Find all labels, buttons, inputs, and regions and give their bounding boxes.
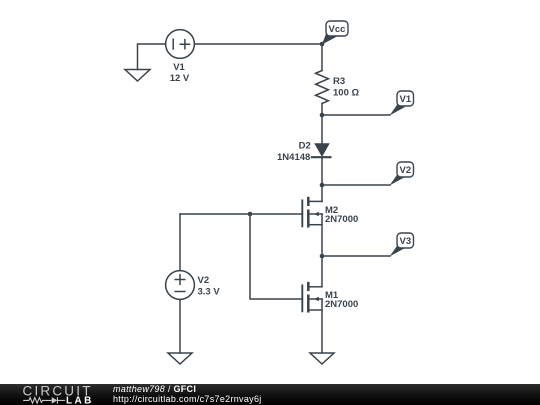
svg-text:V1: V1 [173,62,185,73]
ground (left of V1) [125,70,150,82]
resistor R3 [316,71,329,104]
voltage source V2 [166,271,195,300]
svg-text:2N7000: 2N7000 [325,214,358,225]
node label V2 [390,162,414,186]
wire [322,255,390,257]
svg-text:100 Ω: 100 Ω [333,88,359,99]
svg-text:V2: V2 [198,275,210,286]
wire (M1 drain riser) [321,256,323,287]
wire (M2 source down) [321,214,323,256]
node label V1 [390,91,414,116]
wire [194,43,322,45]
wire (to M1 gate) [250,214,302,299]
transistor M1 [302,283,322,311]
node label V3 [390,233,414,257]
ground (below V2) [168,353,192,364]
wire [321,157,323,185]
footer bar [0,384,540,405]
svg-text:LAB: LAB [66,396,94,405]
wire [322,184,390,186]
wire [138,44,166,70]
wire (gate bus) [180,213,302,215]
node label Vcc [322,21,348,45]
junction (V1 node) [320,113,325,118]
svg-text:V2: V2 [399,165,411,176]
wire [322,114,390,116]
junction (V2 node) [320,183,325,188]
ground (below M1) [310,353,334,364]
svg-text:1N4148: 1N4148 [277,152,310,163]
wire [179,299,181,353]
svg-text:3.3 V: 3.3 V [198,287,221,298]
voltage source V1 [166,30,195,59]
svg-text:2N7000: 2N7000 [325,299,358,310]
svg-text:12 V: 12 V [170,73,190,84]
wire (M2 drain riser) [321,185,323,202]
wire [321,104,323,116]
wire [321,115,323,143]
svg-text:matthew798 / GFCI: matthew798 / GFCI [113,384,196,394]
junction (Vcc node) [320,42,325,47]
CircuitLab logo resistor-diode glyph [23,397,65,404]
wire [321,44,323,71]
transistor M2 [302,198,322,226]
svg-text:R3: R3 [333,76,345,87]
svg-text:http://circuitlab.com/c7s7e2rn: http://circuitlab.com/c7s7e2rnvay6j [113,394,262,404]
svg-text:V3: V3 [399,236,411,247]
junction (gate bus split) [248,212,253,217]
svg-text:V1: V1 [399,94,411,105]
junction (V3 node) [320,254,325,259]
svg-text:Vcc: Vcc [329,24,346,35]
diode D2 [312,143,331,157]
svg-text:D2: D2 [299,141,311,152]
wire (M1 source down) [321,299,323,353]
wire (V2 top) [179,214,181,271]
